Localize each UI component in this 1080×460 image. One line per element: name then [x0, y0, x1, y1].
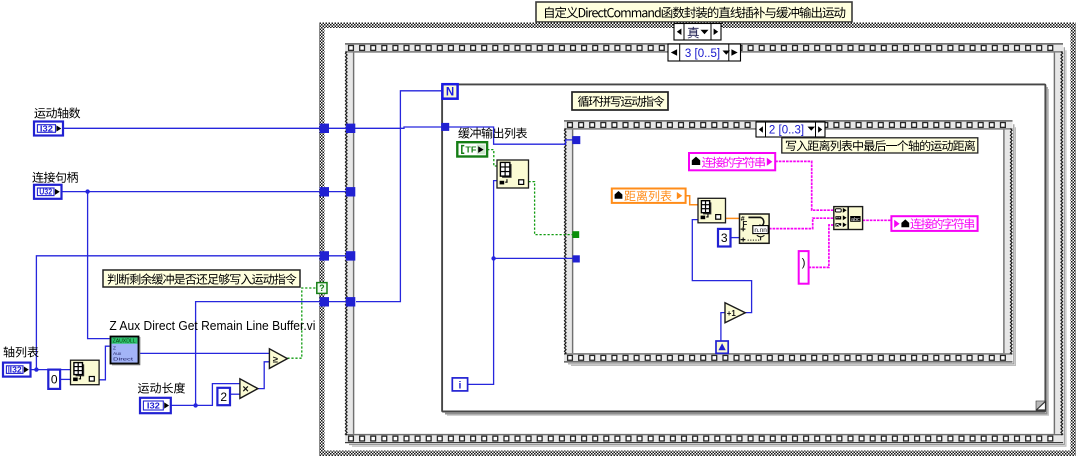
for loop border [442, 84, 1048, 415]
svg-text:Z Aux Direct Get Remain Line B: Z Aux Direct Get Remain Line Buffer.vi [109, 319, 315, 333]
tunnel 连接句柄 case [320, 187, 329, 196]
index array node inner [698, 198, 726, 223]
wire greater-equal to case selector [287, 288, 316, 358]
constant 0 [48, 370, 60, 389]
label 连接句柄 [32, 172, 78, 183]
junction i wire [491, 256, 495, 260]
wire concat to 连接的字符串 local [863, 219, 892, 221]
for loop resize handle [1036, 401, 1045, 410]
svg-text:×: × [242, 384, 248, 396]
wire +1 to index input [692, 220, 751, 313]
local variable 连接的字符串 read [689, 153, 775, 170]
svg-text:?: ? [319, 283, 325, 293]
label title box [536, 2, 852, 22]
sub-VI Z Aux Direct Get Remain Line Buffer [111, 337, 140, 365]
tunnel 运动长度 sequence [346, 297, 355, 306]
tunnel 运动长度 case [320, 297, 329, 306]
svg-text:3: 3 [721, 231, 728, 245]
stacked sequence frame 3 [0..5] [345, 43, 1066, 446]
wire 运动长度 to multiply [171, 384, 240, 406]
wire 3 to to-fractional [731, 237, 740, 239]
wire 距离列表 to index array [686, 196, 698, 205]
wire 运动长度 branch to N [196, 302, 355, 406]
wire 连接句柄 to VI [88, 192, 110, 339]
wire TF array to index array [487, 150, 497, 166]
svg-text:n.nn: n.nn [754, 227, 767, 234]
constant 2 [217, 388, 230, 405]
wire i branch to tunnel [494, 257, 573, 259]
case selector label 真 [674, 24, 721, 41]
sequence selector 3 [0..5] [668, 44, 741, 61]
svg-text:Aux: Aux [113, 351, 122, 357]
sequence local tunnel [716, 341, 728, 353]
tunnel 运动轴数 inner sequence [572, 136, 580, 144]
local variable 距离列表 [612, 189, 686, 203]
increment node [725, 303, 745, 323]
terminal 轴列表 I32 array [3, 363, 31, 377]
svg-text:): ) [802, 257, 806, 269]
index array node left [71, 360, 100, 385]
junction 轴列表 [34, 367, 38, 371]
wire 运动轴数 to loops [63, 127, 573, 144]
wire multiply to greater-equal [258, 362, 270, 389]
greater-equal node [269, 349, 287, 369]
svg-text:≥: ≥ [273, 354, 278, 365]
for loop i terminal [452, 378, 467, 392]
wire index array to VI [99, 346, 110, 380]
wire index array boolean out [529, 182, 573, 235]
tunnel 连接句柄 sequence [346, 187, 355, 196]
for loop N terminal [442, 84, 457, 99]
tunnel 轴列表 sequence [346, 251, 355, 260]
svg-text:2 [0..3]: 2 [0..3] [769, 124, 804, 136]
tunnel 运动轴数 sequence [346, 124, 355, 133]
tunnel boolean inner sequence [572, 231, 579, 238]
svg-text:0: 0 [51, 373, 58, 387]
wire 轴列表 branch to tunnels [36, 256, 355, 370]
tunnel i inner sequence [573, 255, 580, 262]
svg-text:+1: +1 [727, 309, 737, 318]
svg-text:U32: U32 [39, 188, 52, 197]
svg-text:Direct: Direct [113, 356, 134, 362]
svg-text:I32: I32 [10, 366, 23, 375]
svg-text:2: 2 [220, 390, 227, 404]
wire i to index array [468, 181, 497, 385]
wire 0 to index array [60, 378, 71, 380]
terminal 缓冲输出列表 TF array [457, 142, 487, 156]
junction 连接句柄 [85, 189, 89, 193]
index array node in loop [497, 160, 529, 188]
local variable 连接的字符串 write [891, 216, 977, 231]
svg-text:abc: abc [851, 217, 860, 223]
case selector terminal ? [317, 283, 327, 294]
label 写入距离列表中最后一个轴的运动距离 [782, 138, 978, 153]
number to fractional string node [740, 214, 770, 243]
constant 3 [718, 229, 731, 247]
label 循环拼写运动指令 [572, 92, 668, 110]
terminal 运动轴数 I32 [34, 122, 63, 136]
tunnel 运动轴数 for loop [441, 123, 449, 131]
junction 运动长度 [193, 403, 197, 407]
svg-text:ZAUXDLL: ZAUXDLL [113, 338, 136, 344]
label 运动长度 [138, 382, 185, 393]
label 判断剩余缓冲是否还足够写入运动指令 [103, 270, 300, 287]
stacked sequence frame 2 [0..3] [564, 120, 1015, 365]
svg-text:TF: TF [465, 145, 476, 155]
wire ) to concat [809, 225, 834, 267]
svg-text:i: i [458, 380, 461, 392]
label Z Aux Direct Get Remain Line Buffer.vi [109, 319, 315, 333]
concatenate strings node [834, 207, 863, 230]
wire VI to greater-equal [139, 352, 269, 354]
wire 2 to multiply [230, 393, 240, 395]
terminal 连接句柄 U32 [34, 185, 62, 199]
case structure border [319, 23, 1076, 457]
multiply node [240, 379, 258, 399]
wire 轴列表 to index array [31, 369, 71, 371]
svg-text:3 [0..5]: 3 [0..5] [685, 48, 720, 60]
label 运动轴数 [34, 107, 80, 118]
wire sequence local to +1 [721, 313, 725, 341]
svg-text:I32: I32 [40, 124, 54, 133]
tunnel 轴列表 case [320, 251, 329, 260]
svg-text:I32: I32 [147, 401, 161, 410]
terminal 运动长度 I32 [140, 398, 171, 413]
svg-text:Z: Z [113, 345, 116, 351]
wire index array to to-fractional [726, 217, 740, 219]
wire 连接的字符串 local to concat [775, 161, 834, 210]
constant ) [799, 251, 809, 284]
svg-text:N: N [446, 87, 454, 99]
wire 连接句柄 main [61, 191, 355, 193]
sequence selector 2 [0..3] [756, 122, 825, 137]
tunnel 运动轴数 case [320, 124, 329, 133]
wire to-fractional to concat [769, 218, 834, 228]
wire tunnel to N terminal [356, 91, 442, 302]
label 缓冲输出列表 [458, 128, 527, 139]
label 轴列表 [4, 346, 39, 357]
